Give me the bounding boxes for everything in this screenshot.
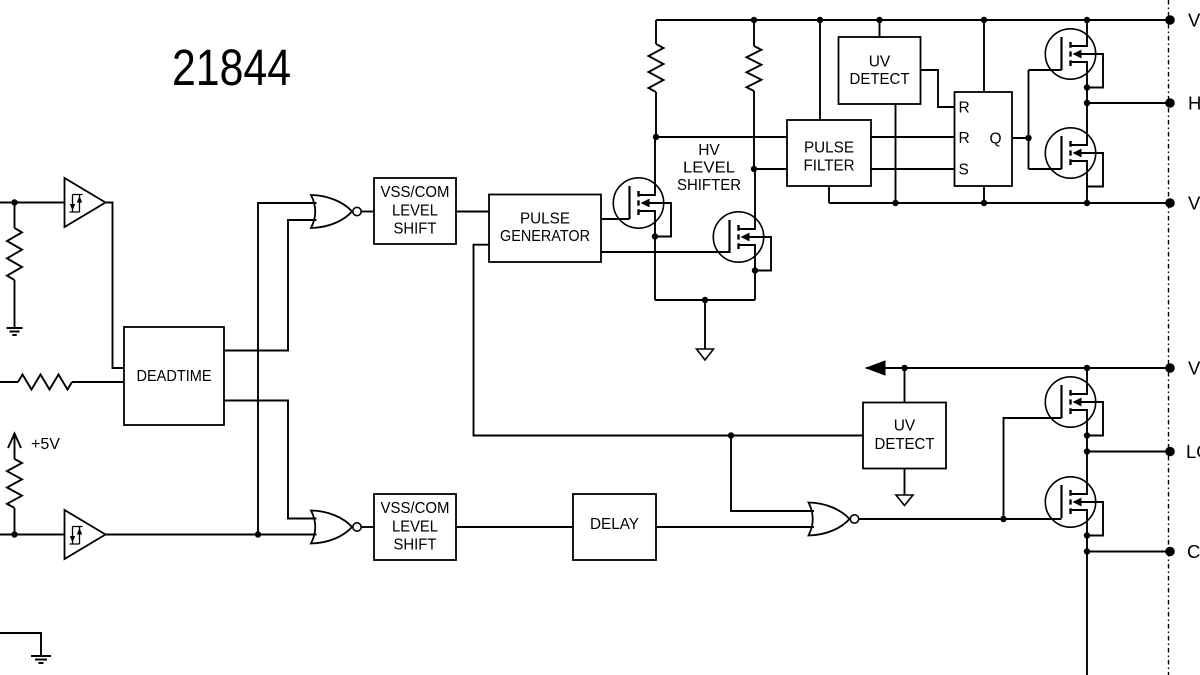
- transistor Q6 low-side driver low: [1045, 473, 1103, 536]
- svg-text:UV: UV: [894, 418, 916, 435]
- svg-text:SHIFTER: SHIFTER: [677, 177, 741, 194]
- wire NOR1 to VSS/COM 1: [362, 211, 375, 213]
- wire Q4 drain: [754, 169, 756, 208]
- arrow VCC filled: [865, 360, 886, 375]
- ground G1: [7, 328, 23, 335]
- wire Q5 source to LO: [1086, 436, 1088, 452]
- wire NOR2 to VSS/COM 2: [362, 526, 375, 528]
- wire bus1 LIN to NOR1: [258, 203, 317, 535]
- wire level shifter source rail: [655, 299, 755, 301]
- pin HO: [1165, 98, 1175, 108]
- wire deadtime lower out to NOR2: [224, 401, 317, 519]
- svg-text:Q: Q: [990, 131, 1002, 148]
- box latch U1: [955, 92, 1013, 186]
- svg-text:PULSE: PULSE: [804, 140, 854, 157]
- resistor R4 DT: [0, 375, 124, 390]
- pin LO: [1165, 447, 1175, 457]
- wire Q1 source to HO: [1086, 88, 1088, 104]
- wire VB top rail: [656, 19, 1170, 21]
- svg-text:VSS/COM: VSS/COM: [381, 500, 450, 517]
- wire VS bus: [829, 202, 1170, 204]
- wire Q5 drain: [1086, 368, 1088, 374]
- wire LO line: [1087, 451, 1170, 453]
- wire Q3 source down: [654, 237, 656, 301]
- svg-text:VCC: VCC: [1188, 358, 1200, 379]
- svg-text:SHIFT: SHIFT: [394, 221, 438, 238]
- wire UV2 bottom stub: [904, 469, 906, 496]
- pin VB: [1165, 15, 1175, 25]
- node dots left section: [11, 199, 17, 205]
- ground G2: [31, 656, 51, 663]
- box DEADTIME: [124, 327, 224, 425]
- wire pulse filter to latch S: [871, 168, 955, 170]
- wire Q3 gate from pulse generator: [601, 218, 630, 220]
- wire latch bottom stub: [983, 186, 985, 203]
- box VSS/COM LEVEL SHIFT 2: [374, 494, 456, 560]
- pin VCC: [1165, 363, 1175, 373]
- wire Q1 drain: [1086, 20, 1088, 30]
- wire VSS/COM 1 to pulse generator: [456, 211, 489, 213]
- svg-text:LO: LO: [1186, 441, 1200, 462]
- resistor R5 pullup: [7, 459, 22, 535]
- wire Q3 drain: [654, 137, 656, 174]
- svg-text:LEVEL: LEVEL: [392, 518, 438, 535]
- svg-text:DETECT: DETECT: [875, 436, 936, 453]
- box PULSE GENERATOR: [489, 195, 601, 263]
- svg-text:S: S: [959, 162, 969, 179]
- wire ground lead bottom left: [0, 633, 41, 656]
- box UV DETECT 2: [863, 403, 946, 469]
- svg-text:R: R: [959, 130, 970, 147]
- box VSS/COM LEVEL SHIFT 1: [374, 178, 456, 244]
- arrow to VS open: [697, 349, 714, 360]
- box DELAY: [573, 494, 656, 560]
- pin VS: [1165, 198, 1175, 208]
- svg-text:VS: VS: [1188, 193, 1200, 214]
- +5V arrow: [8, 434, 21, 460]
- wire UV2 top stub: [904, 368, 906, 403]
- gate NOR3: [809, 503, 859, 536]
- wire HIN input line: [0, 202, 65, 204]
- box UV DETECT top: [839, 37, 921, 104]
- wire NOR3 output to gates: [859, 518, 1062, 520]
- gate NOR2: [311, 511, 361, 544]
- wire LIN input line: [0, 534, 317, 536]
- resistor R1: [649, 20, 664, 137]
- svg-text:HV: HV: [698, 142, 720, 159]
- wire Q6 source to COM: [1086, 536, 1088, 552]
- transistor Q2 high-side driver low: [1045, 124, 1103, 187]
- wire feedback branch to NOR3: [731, 436, 814, 512]
- resistor R3 input: [7, 203, 22, 329]
- wire COM line: [1087, 551, 1170, 553]
- wire UV detect to latch R1: [921, 70, 955, 107]
- transistor Q1 high-side driver: [1045, 25, 1103, 88]
- IC boundary dash-dot line: [1168, 0, 1170, 675]
- svg-text:GENERATOR: GENERATOR: [500, 228, 590, 245]
- wire pulse filter bottom stub: [828, 186, 830, 203]
- svg-text:UV: UV: [869, 54, 891, 71]
- arrow to COM open: [896, 495, 913, 506]
- wire buffer U2 output to deadtime: [106, 203, 125, 369]
- wire Q6 drain: [1086, 452, 1088, 475]
- box PULSE FILTER: [787, 120, 871, 186]
- wire delay to NOR3: [656, 526, 814, 528]
- box HV level shifter label: [677, 142, 741, 194]
- svg-text:SHIFT: SHIFT: [394, 537, 438, 554]
- resistor R2: [747, 20, 762, 169]
- svg-text:PULSE: PULSE: [520, 211, 570, 228]
- wire latch supply stub: [983, 20, 985, 92]
- buffer U3 input schmitt: [65, 510, 106, 559]
- svg-text:+5V: +5V: [31, 436, 60, 453]
- wire Q4 source down: [754, 271, 756, 301]
- svg-text:FILTER: FILTER: [804, 158, 855, 175]
- svg-text:R: R: [959, 100, 970, 117]
- wire R1 to pulse filter input: [656, 136, 787, 138]
- wire gate branch up to Q5: [1004, 418, 1062, 519]
- gate NOR1: [311, 195, 361, 228]
- svg-text:LEVEL: LEVEL: [392, 202, 438, 219]
- wire HO line: [1087, 102, 1170, 104]
- transistor Q4 level shift: [713, 208, 771, 271]
- wire Q2 source to VS: [1086, 187, 1088, 204]
- wire UV detect top stub: [879, 20, 881, 37]
- transistor Q3 level shift: [613, 174, 671, 237]
- wire Q2 drain: [1086, 103, 1088, 125]
- wire Q4 gate from pulse generator: [601, 251, 730, 253]
- pin COM: [1165, 547, 1175, 557]
- wire pulse filter top stub: [819, 20, 821, 120]
- node dots top section: [751, 17, 757, 23]
- wire COM bus down: [1086, 552, 1088, 675]
- svg-text:COM: COM: [1187, 541, 1200, 562]
- svg-text:DEADTIME: DEADTIME: [137, 368, 212, 385]
- wire pulse generator feedback to UV detect 2: [474, 245, 864, 436]
- transistor Q5 low-side driver: [1045, 373, 1103, 436]
- wire rail to arrow: [704, 300, 706, 349]
- buffer U2 input schmitt: [65, 178, 106, 227]
- svg-text:DETECT: DETECT: [850, 71, 911, 88]
- wire VSS/COM 2 to delay: [456, 526, 573, 528]
- svg-text:DELAY: DELAY: [590, 516, 639, 533]
- svg-text:VSS/COM: VSS/COM: [381, 184, 450, 201]
- wire R2 to pulse filter input: [754, 168, 787, 170]
- svg-text:21844: 21844: [172, 39, 291, 96]
- wire pulse filter to latch R2: [871, 136, 955, 138]
- wire latch Q output: [1012, 137, 1029, 139]
- wire deadtime upper out to NOR1: [224, 220, 317, 351]
- svg-text:HO: HO: [1188, 93, 1200, 114]
- wire UV detect bottom stub: [895, 104, 897, 203]
- svg-text:VB: VB: [1188, 10, 1200, 31]
- svg-text:LEVEL: LEVEL: [683, 160, 735, 177]
- wire VCC rail: [866, 367, 1170, 369]
- wire output gate bus: [1029, 70, 1062, 169]
